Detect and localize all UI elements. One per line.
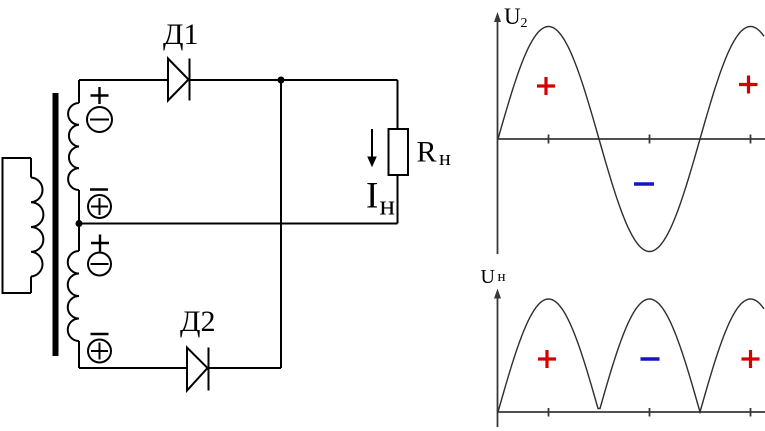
polarity minus bar (above center tap, upper half): [90, 188, 108, 190]
U2 plot vertical axis: [497, 18, 499, 254]
svg-text:Д1: Д1: [163, 18, 198, 51]
svg-text:2: 2: [521, 16, 528, 31]
polarity circled-minus (secondary upper): [87, 107, 112, 132]
U2 axis tick 3: [750, 135, 752, 144]
polarity plus sign (lower half, below center tap): [91, 235, 109, 252]
sign minus second hump (Un): [641, 357, 660, 361]
wire bottom (secondary bottom terminal through D2): [79, 367, 281, 369]
svg-text:U: U: [481, 266, 496, 288]
U2 axis tick 1: [548, 135, 550, 144]
sign minus second half-wave (U2): [634, 182, 654, 186]
svg-text:R: R: [417, 136, 437, 169]
U2 sine curve: [498, 27, 764, 252]
polarity minus bar (secondary lower terminal): [91, 333, 109, 335]
diode D1: [168, 59, 190, 101]
U2 axis tick 2: [649, 135, 651, 144]
diode D2: [187, 348, 209, 391]
svg-text:Д2: Д2: [180, 305, 215, 338]
svg-text:н: н: [498, 269, 506, 285]
current arrow In: [368, 129, 376, 166]
svg-text:U: U: [504, 4, 521, 29]
sign plus third half-wave (U2): [739, 76, 758, 94]
svg-text:н: н: [380, 190, 396, 222]
polarity circled-plus (upper half near center tap): [88, 195, 111, 218]
sign plus third hump (Un): [742, 350, 760, 368]
Un axis tick 2: [649, 408, 651, 417]
transformer T1 secondary winding lower half: [68, 224, 79, 369]
wire resistor bottom to load return: [397, 175, 399, 224]
wire top (secondary top terminal to load, through D1): [79, 79, 398, 81]
transformer T1 primary winding: [3, 158, 44, 293]
Un rectified curve: [498, 299, 764, 412]
Un axis tick 3: [750, 408, 752, 417]
polarity circled-minus (lower half): [88, 253, 111, 276]
node center tap junction dot: [76, 220, 83, 227]
resistor Rn: [389, 129, 409, 175]
transformer core: [53, 93, 59, 356]
transformer T1 secondary winding upper half: [68, 80, 79, 224]
wire center tap to load return: [79, 223, 398, 225]
polarity circled-plus (secondary lower terminal): [88, 340, 111, 363]
sign plus first hump (Un): [538, 350, 556, 368]
polarity plus sign (secondary upper terminal): [91, 87, 109, 104]
Un plot vertical axis: [497, 294, 499, 427]
U2 plot horizontal axis: [498, 138, 765, 140]
node D1/D2 cathode junction dot: [278, 77, 285, 84]
Un plot horizontal axis: [498, 411, 765, 413]
wire D2 cathode riser: [280, 80, 282, 368]
wire right load branch (down to resistor): [397, 80, 399, 129]
svg-text:I: I: [366, 176, 378, 217]
sign plus first half-wave (U2): [537, 77, 555, 95]
svg-text:н: н: [439, 145, 451, 170]
Un axis tick 1: [548, 408, 550, 417]
